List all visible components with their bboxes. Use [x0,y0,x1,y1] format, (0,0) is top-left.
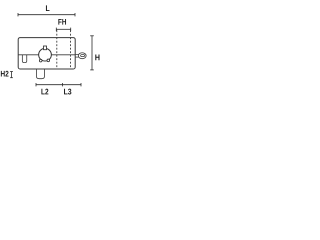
background [0,0,100,100]
dimension H2 line with end ticks [10,72,13,78]
U slot under seam line [22,55,26,63]
label H2 [1,71,9,77]
dimension H line with end ticks [90,36,94,70]
small hole right [47,59,50,62]
label FH [58,19,66,25]
dimension FH line with end ticks [56,28,70,31]
lock body outline [18,38,75,69]
chain dimension line L2/L3 with ticks [36,83,81,86]
eyelet shaft [75,55,79,58]
label H [95,55,99,61]
body mid seam line left segment [18,54,39,56]
label L3 [64,89,71,95]
bottom tab [36,69,44,79]
eyelet ring inner [81,55,85,57]
small hole left [39,59,42,62]
label L2 [41,89,48,95]
dimension L line with end ticks [18,13,75,16]
dashed extension line right [70,30,72,68]
body mid seam line right segment [51,54,75,56]
cylinder circle [39,48,52,61]
label L [46,5,50,11]
eyelet ring outer [78,53,86,59]
keyway notch [44,46,47,50]
dashed extension line left [56,30,58,68]
